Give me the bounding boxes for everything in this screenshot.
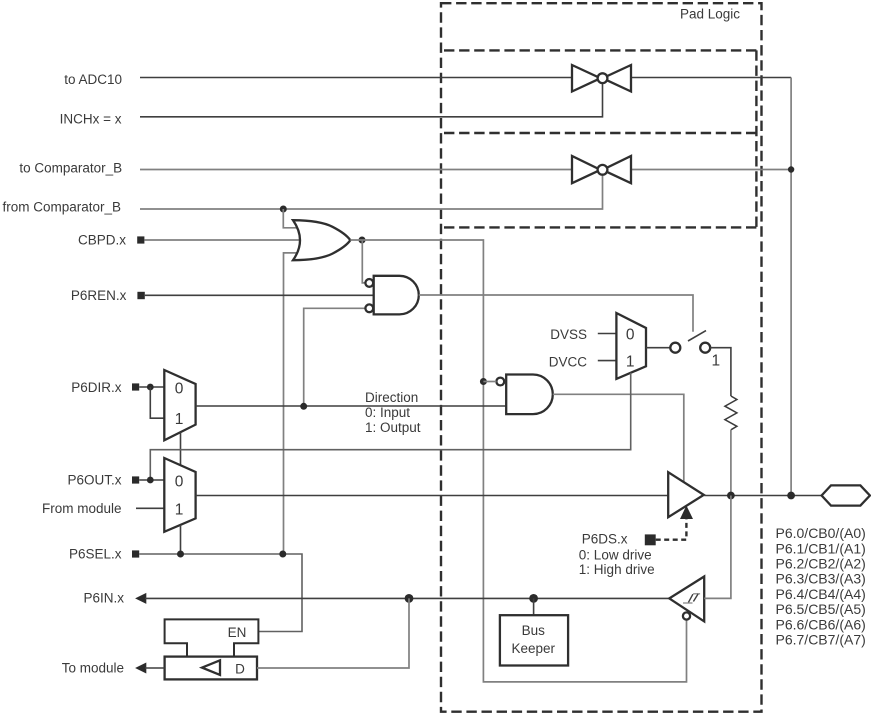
pad P6 pin bbox=[822, 485, 870, 505]
square P6SEL.x bbox=[132, 550, 139, 557]
resistor R1 bbox=[725, 396, 737, 430]
wire AND bottom input bbox=[304, 308, 366, 406]
dashed divider 1 (ADC box top) bbox=[444, 49, 756, 51]
svg-text:0: 0 bbox=[626, 327, 635, 344]
latch EN (input enable) bbox=[165, 619, 259, 656]
wire P6DIR.x to mux bbox=[139, 386, 164, 388]
dashed divider 2 (ADC box bottom) bbox=[444, 132, 756, 134]
wire resistor to pad line bbox=[730, 430, 732, 496]
wire DVCC stub bbox=[598, 360, 617, 362]
wire OR bottom input to P6SEL bbox=[284, 253, 298, 554]
svg-text:1: 1 bbox=[175, 411, 184, 428]
wire NAND output to driver enable bbox=[553, 394, 684, 482]
wire to ADC10 left bbox=[140, 77, 572, 79]
wire To module bbox=[145, 667, 165, 669]
wire M3 output to driver bbox=[196, 495, 668, 497]
svg-text:to ADC10: to ADC10 bbox=[64, 72, 122, 87]
svg-text:P6.1/CB1/(A1): P6.1/CB1/(A1) bbox=[776, 540, 866, 556]
svg-text:to Comparator_B: to Comparator_B bbox=[19, 161, 122, 176]
square P6OUT.x bbox=[132, 476, 139, 483]
svg-text:P6.2/CB2/(A2): P6.2/CB2/(A2) bbox=[776, 556, 866, 572]
or-gate U1 bbox=[293, 220, 350, 260]
arrow To module bbox=[135, 663, 146, 674]
wire CBPD.x bbox=[144, 239, 300, 241]
svg-text:DVSS: DVSS bbox=[550, 327, 587, 342]
node NAND input junction bbox=[480, 378, 487, 385]
wire M1 select bbox=[180, 432, 182, 465]
svg-text:1: 1 bbox=[175, 501, 184, 518]
svg-text:P6.6/CB6/(A6): P6.6/CB6/(A6) bbox=[776, 616, 866, 632]
svg-text:P6IN.x: P6IN.x bbox=[83, 591, 124, 606]
square P6DS.x bbox=[645, 534, 656, 545]
svg-text:1: 1 bbox=[712, 352, 721, 369]
transmission gate T1 (ADC) bbox=[572, 65, 631, 92]
svg-text:To module: To module bbox=[62, 660, 124, 675]
node pad/bus junction bbox=[787, 492, 795, 500]
node P6SEL OR junction bbox=[279, 551, 286, 558]
svg-text:From module: From module bbox=[42, 501, 122, 516]
svg-text:P6.4/CB4/(A4): P6.4/CB4/(A4) bbox=[776, 586, 866, 602]
wire P6DS dashed bbox=[656, 518, 687, 540]
node P6SEL select junction bbox=[177, 551, 184, 558]
wire OR output to pad logic bbox=[350, 240, 686, 682]
nand-gate U3 (direction) bbox=[496, 375, 552, 415]
node OR output junction bbox=[359, 237, 366, 244]
wire M3 select bbox=[180, 525, 182, 554]
wire from Comparator_B bbox=[140, 175, 603, 209]
wire M2 select from P6OUT bbox=[150, 373, 630, 480]
svg-text:0: 0 bbox=[175, 381, 184, 398]
svg-text:from Comparator_B: from Comparator_B bbox=[2, 200, 121, 215]
square P6DIR.x bbox=[132, 383, 139, 390]
wire M1 output (direction) bbox=[196, 405, 507, 407]
svg-text:DVCC: DVCC bbox=[549, 354, 588, 369]
mux M2 (DVSS/DVCC) bbox=[616, 313, 646, 379]
svg-text:P6.0/CB0/(A0): P6.0/CB0/(A0) bbox=[776, 525, 866, 541]
svg-text:0: Low drive: 0: Low drive bbox=[579, 548, 652, 563]
wire NAND input from OR line bbox=[483, 381, 496, 383]
svg-text:P6.5/CB5/(A5): P6.5/CB5/(A5) bbox=[776, 601, 866, 617]
driver U4 (output buffer) bbox=[668, 472, 704, 517]
wire DVSS stub bbox=[598, 333, 617, 335]
arrow P6DS drive strength bbox=[680, 506, 693, 520]
wire AND output to switch bbox=[419, 295, 693, 332]
node P6IN/bus keeper junction bbox=[529, 594, 538, 603]
svg-text:Bus: Bus bbox=[522, 623, 546, 638]
svg-text:CBPD.x: CBPD.x bbox=[78, 233, 126, 248]
node P6IN/D junction bbox=[405, 594, 414, 603]
wire P6REN.x bbox=[145, 294, 374, 296]
wire switch to resistor bbox=[710, 348, 731, 396]
svg-text:P6SEL.x: P6SEL.x bbox=[69, 547, 122, 562]
wire From module bbox=[136, 507, 164, 509]
and-gate U2 (pullup enable) bbox=[365, 276, 418, 315]
svg-text:P6.3/CB3/(A3): P6.3/CB3/(A3) bbox=[776, 571, 866, 587]
wire to Comparator_B right bbox=[631, 169, 791, 171]
wire to Comparator_B left bbox=[140, 169, 572, 171]
svg-text:D: D bbox=[235, 662, 245, 677]
wire bus keeper stub bbox=[533, 598, 535, 614]
flip-flop D (input register) bbox=[165, 657, 257, 680]
dashed divider 3 (comparator box bottom) bbox=[444, 226, 756, 228]
schmitt trigger U5 bbox=[669, 577, 704, 622]
mux M1 (P6DIR) bbox=[164, 370, 195, 440]
svg-text:P6DIR.x: P6DIR.x bbox=[71, 380, 122, 395]
svg-text:P6OUT.x: P6OUT.x bbox=[67, 473, 121, 488]
wire M2 output to switch bbox=[646, 347, 670, 349]
svg-text:Direction: Direction bbox=[365, 390, 418, 405]
node pad/resistor junction bbox=[727, 492, 735, 500]
wire to ADC10 right bbox=[631, 77, 791, 79]
wire OR top input jog bbox=[283, 209, 297, 228]
wire D input bbox=[257, 598, 409, 668]
transmission gate T2 (comparator) bbox=[572, 156, 631, 183]
wire P6IN.x bbox=[145, 597, 669, 599]
square CBPD.x bbox=[137, 236, 144, 243]
node P6OUT tie bbox=[147, 477, 154, 484]
node direction junction bbox=[300, 403, 307, 410]
svg-text:P6.7/CB7/(A7): P6.7/CB7/(A7) bbox=[776, 632, 866, 648]
svg-text:P6DS.x: P6DS.x bbox=[582, 531, 628, 546]
wire P6OUT.x to mux bbox=[139, 479, 164, 481]
svg-text:Keeper: Keeper bbox=[512, 641, 556, 656]
square P6REN.x bbox=[137, 292, 144, 299]
wire pad line bbox=[704, 495, 821, 497]
svg-text:1: High drive: 1: High drive bbox=[579, 562, 655, 577]
triangle D clock bbox=[202, 660, 220, 675]
svg-text:EN: EN bbox=[228, 625, 247, 640]
svg-text:1: 1 bbox=[626, 354, 635, 371]
wire INCHx select bbox=[140, 83, 603, 116]
bus keeper B1 bbox=[500, 615, 568, 665]
node P6DIR tie bbox=[147, 384, 154, 391]
wire P6DIR tie to input 1 bbox=[150, 387, 164, 418]
wire pad vertical bus bbox=[790, 78, 792, 496]
mux M3 (P6OUT) bbox=[164, 458, 195, 532]
svg-text:0: Input: 0: Input bbox=[365, 405, 410, 420]
switch S1 bbox=[670, 331, 710, 353]
dashed inner right edge bbox=[755, 50, 757, 227]
wire OR output to NAND input bbox=[362, 240, 365, 283]
svg-text:1: Output: 1: Output bbox=[365, 420, 421, 435]
node junction from Comparator_B bbox=[280, 206, 287, 213]
wire P6SEL.x bbox=[139, 554, 302, 632]
node junction comparator/pad bus bbox=[788, 166, 794, 172]
arrow P6IN.x bbox=[135, 593, 146, 604]
svg-text:0: 0 bbox=[175, 473, 184, 490]
outer dashed box Pad Logic bbox=[441, 3, 762, 712]
svg-text:INCHx = x: INCHx = x bbox=[60, 111, 122, 126]
svg-text:Pad Logic: Pad Logic bbox=[680, 7, 740, 22]
wire schmitt input bbox=[704, 496, 731, 599]
svg-text:P6REN.x: P6REN.x bbox=[71, 288, 127, 303]
label pin list bbox=[776, 525, 866, 647]
